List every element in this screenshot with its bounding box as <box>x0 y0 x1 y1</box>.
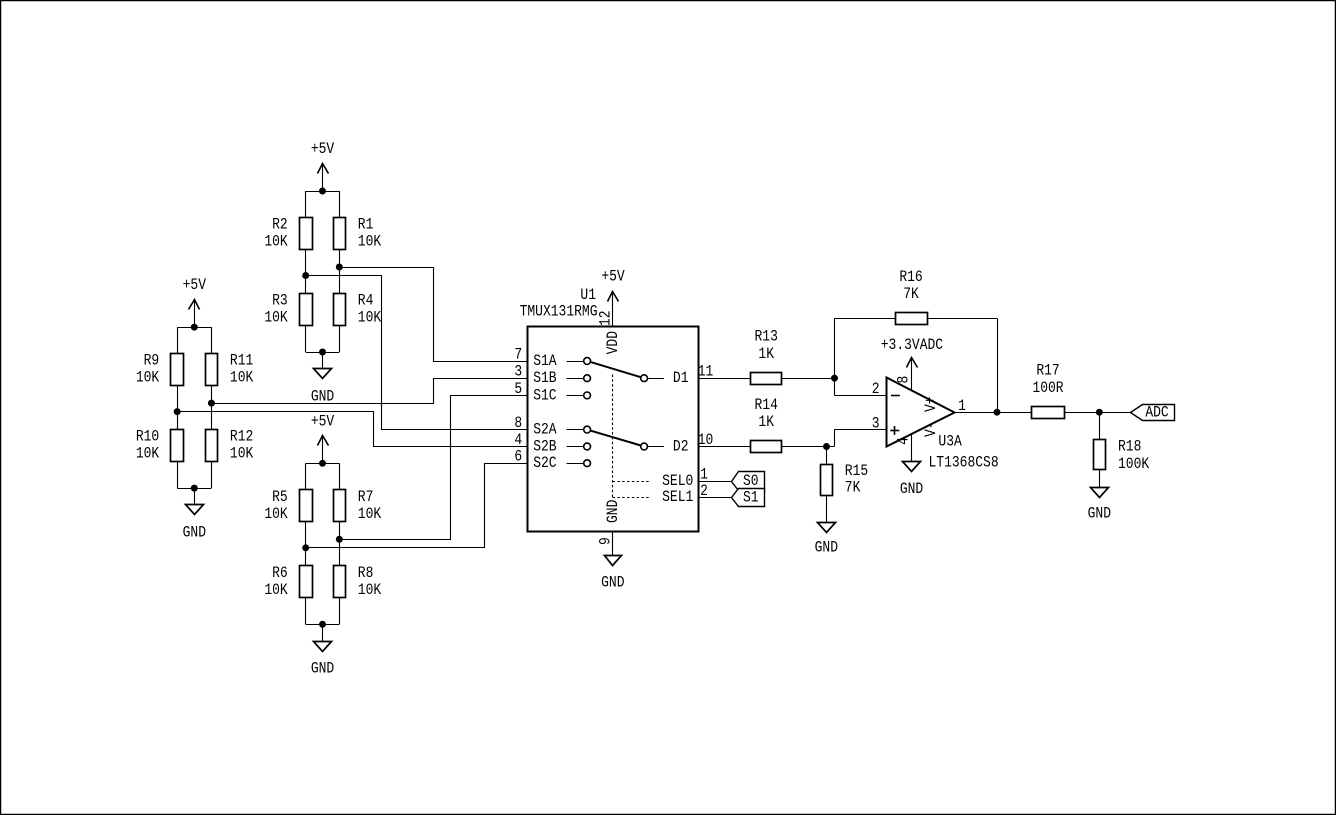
svg-text:R17: R17 <box>1036 363 1059 380</box>
svg-text:10K: 10K <box>358 582 382 599</box>
svg-text:D1: D1 <box>673 370 689 387</box>
svg-text:D2: D2 <box>673 438 689 455</box>
svg-text:S0: S0 <box>743 473 759 490</box>
svg-text:5: 5 <box>514 381 522 398</box>
svg-text:7K: 7K <box>903 286 919 303</box>
svg-text:10K: 10K <box>136 446 160 463</box>
svg-text:TMUX131RMG: TMUX131RMG <box>520 304 598 321</box>
svg-text:R12: R12 <box>230 429 253 446</box>
svg-text:R6: R6 <box>272 565 288 582</box>
svg-text:R13: R13 <box>755 329 778 346</box>
svg-text:1K: 1K <box>758 414 774 431</box>
svg-text:R18: R18 <box>1118 439 1141 456</box>
svg-text:R3: R3 <box>272 293 288 310</box>
svg-text:1: 1 <box>958 398 966 415</box>
svg-text:9: 9 <box>598 537 615 545</box>
svg-text:8: 8 <box>514 415 522 432</box>
svg-text:7K: 7K <box>845 480 861 497</box>
svg-text:SEL0: SEL0 <box>662 473 693 490</box>
svg-text:R4: R4 <box>358 293 374 310</box>
svg-text:S1C: S1C <box>533 388 556 405</box>
svg-text:4: 4 <box>896 437 913 445</box>
svg-text:R8: R8 <box>358 565 374 582</box>
svg-text:10K: 10K <box>358 310 382 327</box>
svg-text:R9: R9 <box>144 353 160 370</box>
svg-text:R15: R15 <box>845 463 868 480</box>
svg-text:7: 7 <box>514 347 522 364</box>
svg-text:SEL1: SEL1 <box>662 489 693 506</box>
svg-text:GND: GND <box>311 661 334 678</box>
svg-text:LT1368CS8: LT1368CS8 <box>929 455 999 472</box>
svg-text:10K: 10K <box>264 506 288 523</box>
svg-text:+5V: +5V <box>601 268 625 285</box>
svg-text:S2C: S2C <box>533 455 556 472</box>
svg-text:6: 6 <box>514 449 522 466</box>
svg-text:100K: 100K <box>1118 456 1150 473</box>
svg-text:10K: 10K <box>264 582 288 599</box>
svg-text:100R: 100R <box>1032 380 1064 397</box>
svg-text:3: 3 <box>872 415 880 432</box>
svg-text:R7: R7 <box>358 489 374 506</box>
svg-text:S1A: S1A <box>533 353 557 370</box>
svg-text:10K: 10K <box>230 370 254 387</box>
svg-text:R2: R2 <box>272 217 288 234</box>
svg-text:U3A: U3A <box>938 434 962 451</box>
svg-text:10K: 10K <box>264 310 288 327</box>
svg-text:R14: R14 <box>755 397 778 414</box>
svg-text:10K: 10K <box>230 446 254 463</box>
svg-text:10K: 10K <box>358 234 382 251</box>
svg-text:GND: GND <box>1088 506 1111 523</box>
svg-text:S2A: S2A <box>533 422 557 439</box>
svg-text:R11: R11 <box>230 353 253 370</box>
svg-text:GND: GND <box>601 575 624 592</box>
svg-text:10K: 10K <box>136 370 160 387</box>
svg-text:8: 8 <box>896 376 913 384</box>
svg-text:GND: GND <box>183 525 206 542</box>
svg-text:S2B: S2B <box>533 439 556 456</box>
svg-text:12: 12 <box>598 310 615 326</box>
svg-text:R16: R16 <box>899 269 922 286</box>
svg-text:ADC: ADC <box>1145 404 1168 421</box>
svg-text:10K: 10K <box>264 234 288 251</box>
svg-text:2: 2 <box>872 381 880 398</box>
svg-text:4: 4 <box>514 432 522 449</box>
svg-text:U1: U1 <box>580 287 596 304</box>
svg-text:R5: R5 <box>272 489 288 506</box>
svg-text:+5V: +5V <box>183 277 207 294</box>
svg-text:+3.3VADC: +3.3VADC <box>881 337 943 354</box>
svg-text:GND: GND <box>900 481 923 498</box>
svg-text:+5V: +5V <box>311 413 335 430</box>
svg-text:S1B: S1B <box>533 370 556 387</box>
svg-text:R10: R10 <box>136 429 159 446</box>
svg-text:GND: GND <box>815 540 838 557</box>
svg-text:V+: V+ <box>923 396 940 412</box>
svg-text:S1: S1 <box>743 489 759 506</box>
svg-text:GND: GND <box>605 500 622 523</box>
svg-text:VDD: VDD <box>605 331 622 354</box>
svg-text:R1: R1 <box>358 217 374 234</box>
svg-text:3: 3 <box>514 364 522 381</box>
svg-text:10K: 10K <box>358 506 382 523</box>
svg-text:1K: 1K <box>758 346 774 363</box>
svg-text:+5V: +5V <box>311 141 335 158</box>
